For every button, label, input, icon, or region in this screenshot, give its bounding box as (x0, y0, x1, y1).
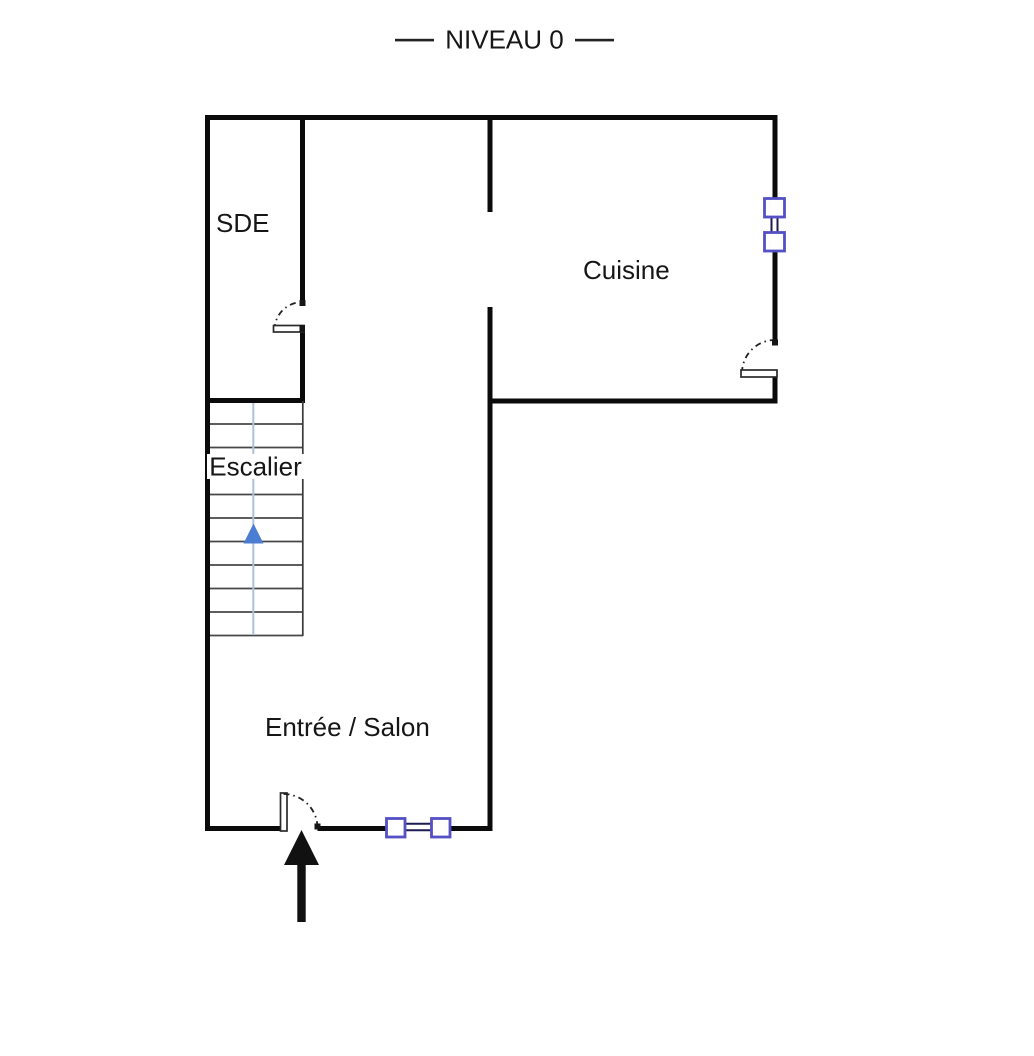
door entrance swing arc (284, 794, 318, 828)
door cuisine leaf (741, 370, 777, 377)
door entrance latch cap (315, 824, 321, 830)
stair tread 9 (210, 611, 303, 613)
door cuisine hinge cap (772, 340, 778, 346)
window salon square right (432, 819, 451, 838)
label Escalier backdrop (207, 454, 304, 479)
wall cuisine bottom (488, 399, 778, 404)
window cuisine glazing line 2 (777, 216, 779, 233)
stair tread 4 (210, 494, 303, 496)
stair tread 5 (210, 517, 303, 519)
wall bottom left segment (205, 826, 282, 831)
window cuisine glazing line 1 (771, 216, 773, 233)
door SDE leaf (274, 326, 305, 333)
window cuisine square upper (765, 199, 785, 218)
window salon glazing line 1 (404, 823, 432, 825)
wall cuisine right upper (773, 115, 778, 199)
svg-text:NIVEAU 0: NIVEAU 0 (445, 25, 564, 55)
stair direction arrow (244, 524, 264, 544)
stair tread 6 (210, 541, 303, 543)
stair tread 10 (210, 635, 303, 637)
door cuisine swing arc (742, 340, 775, 373)
svg-text:Entrée / Salon: Entrée / Salon (265, 712, 430, 742)
door entrance leaf (281, 793, 288, 831)
wall SDE right lower (300, 327, 305, 403)
wall bottom right segment (449, 826, 493, 831)
stair tread 2 (210, 447, 303, 449)
stair tread 8 (210, 588, 303, 590)
stair tread 3 (210, 470, 303, 472)
stair right edge (302, 401, 304, 636)
entrance arrow stem (297, 864, 305, 922)
svg-text:Cuisine: Cuisine (583, 255, 670, 285)
wall hall upper (488, 115, 493, 212)
wall hall lower (488, 307, 493, 831)
stair tread 1 (210, 423, 303, 425)
stair center guide line (252, 403, 254, 635)
wall left (205, 115, 210, 831)
wall bottom middle segment (318, 826, 388, 831)
door SDE swing arc (275, 302, 303, 330)
wall SDE right upper (300, 115, 305, 303)
window salon glazing line 2 (404, 829, 432, 831)
entrance arrow head (284, 830, 319, 865)
stair tread 7 (210, 564, 303, 566)
title dash left (395, 39, 434, 42)
wall cuisine right middle (773, 251, 778, 343)
wall cuisine right lower (773, 374, 778, 404)
door SDE hinge cap (300, 300, 306, 306)
title dash right (575, 39, 614, 42)
window salon square left (387, 819, 406, 838)
door SDE latch cap (300, 325, 306, 332)
wall top (205, 115, 778, 120)
wall SDE bottom (205, 398, 305, 403)
svg-text:Escalier: Escalier (209, 452, 302, 482)
window cuisine square lower (765, 233, 785, 252)
svg-text:SDE: SDE (216, 208, 269, 238)
